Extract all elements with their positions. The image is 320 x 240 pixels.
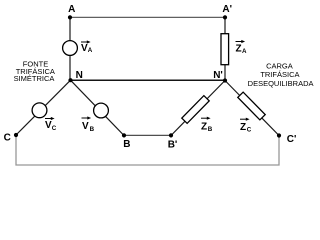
source V_C label — [45, 117, 57, 132]
svg-text:Z: Z — [201, 122, 207, 133]
svg-text:C': C' — [287, 134, 297, 145]
svg-text:B: B — [90, 126, 95, 133]
svg-text:Z: Z — [236, 44, 242, 55]
svg-text:Z: Z — [240, 122, 246, 133]
wire N to N' — [70, 79, 225, 81]
wire diagonal N' to C' — [225, 81, 279, 136]
svg-text:A: A — [242, 48, 247, 55]
node B' — [169, 133, 173, 137]
svg-text:DESEQUILIBRADA: DESEQUILIBRADA — [248, 79, 314, 88]
svg-text:N: N — [76, 70, 83, 81]
wire diagonal N to C — [16, 80, 71, 135]
source V_A label — [81, 40, 93, 54]
label FONTE TRIFASICA SIMETRICA — [14, 60, 55, 84]
node A — [68, 15, 72, 19]
svg-text:SIMÉTRICA: SIMÉTRICA — [14, 74, 55, 83]
impedance Z_A rectangle — [221, 34, 229, 65]
svg-text:C: C — [52, 125, 57, 132]
svg-text:B': B' — [168, 139, 178, 150]
svg-text:TRIFÁSICA: TRIFÁSICA — [260, 70, 299, 79]
wire A down to N — [69, 17, 71, 80]
node N' — [223, 78, 227, 82]
node C — [14, 133, 18, 137]
node C' — [277, 133, 281, 137]
svg-text:C: C — [247, 126, 252, 133]
source V_B circle — [94, 103, 109, 118]
svg-text:A': A' — [222, 4, 232, 15]
svg-text:V: V — [82, 121, 89, 132]
node A' — [223, 15, 227, 19]
wire B to B' — [124, 134, 171, 136]
node N — [68, 78, 72, 82]
source V_C circle — [32, 103, 47, 118]
wire diagonal N to B — [71, 80, 125, 135]
wire A' down to N' — [224, 17, 226, 80]
node B — [122, 133, 126, 137]
impedance Z_B rectangle — [182, 96, 209, 124]
source V_A circle — [63, 41, 78, 56]
wire top A to A' — [70, 16, 225, 18]
svg-text:A: A — [88, 47, 93, 54]
wire bottom C to C' return — [16, 135, 279, 165]
svg-text:A: A — [68, 4, 75, 15]
svg-text:N': N' — [213, 70, 223, 81]
label CARGA TRIFASICA DESEQUILIBRADA — [248, 62, 314, 88]
wire diagonal B' to N' — [171, 81, 225, 136]
impedance Z_C rectangle — [238, 92, 265, 120]
impedance Z_C label — [240, 118, 252, 134]
svg-text:B: B — [208, 126, 213, 133]
source V_B label — [82, 116, 95, 133]
svg-text:C: C — [4, 133, 11, 144]
impedance Z_A label — [236, 40, 248, 55]
svg-text:B: B — [123, 139, 130, 150]
impedance Z_B label — [201, 117, 213, 133]
